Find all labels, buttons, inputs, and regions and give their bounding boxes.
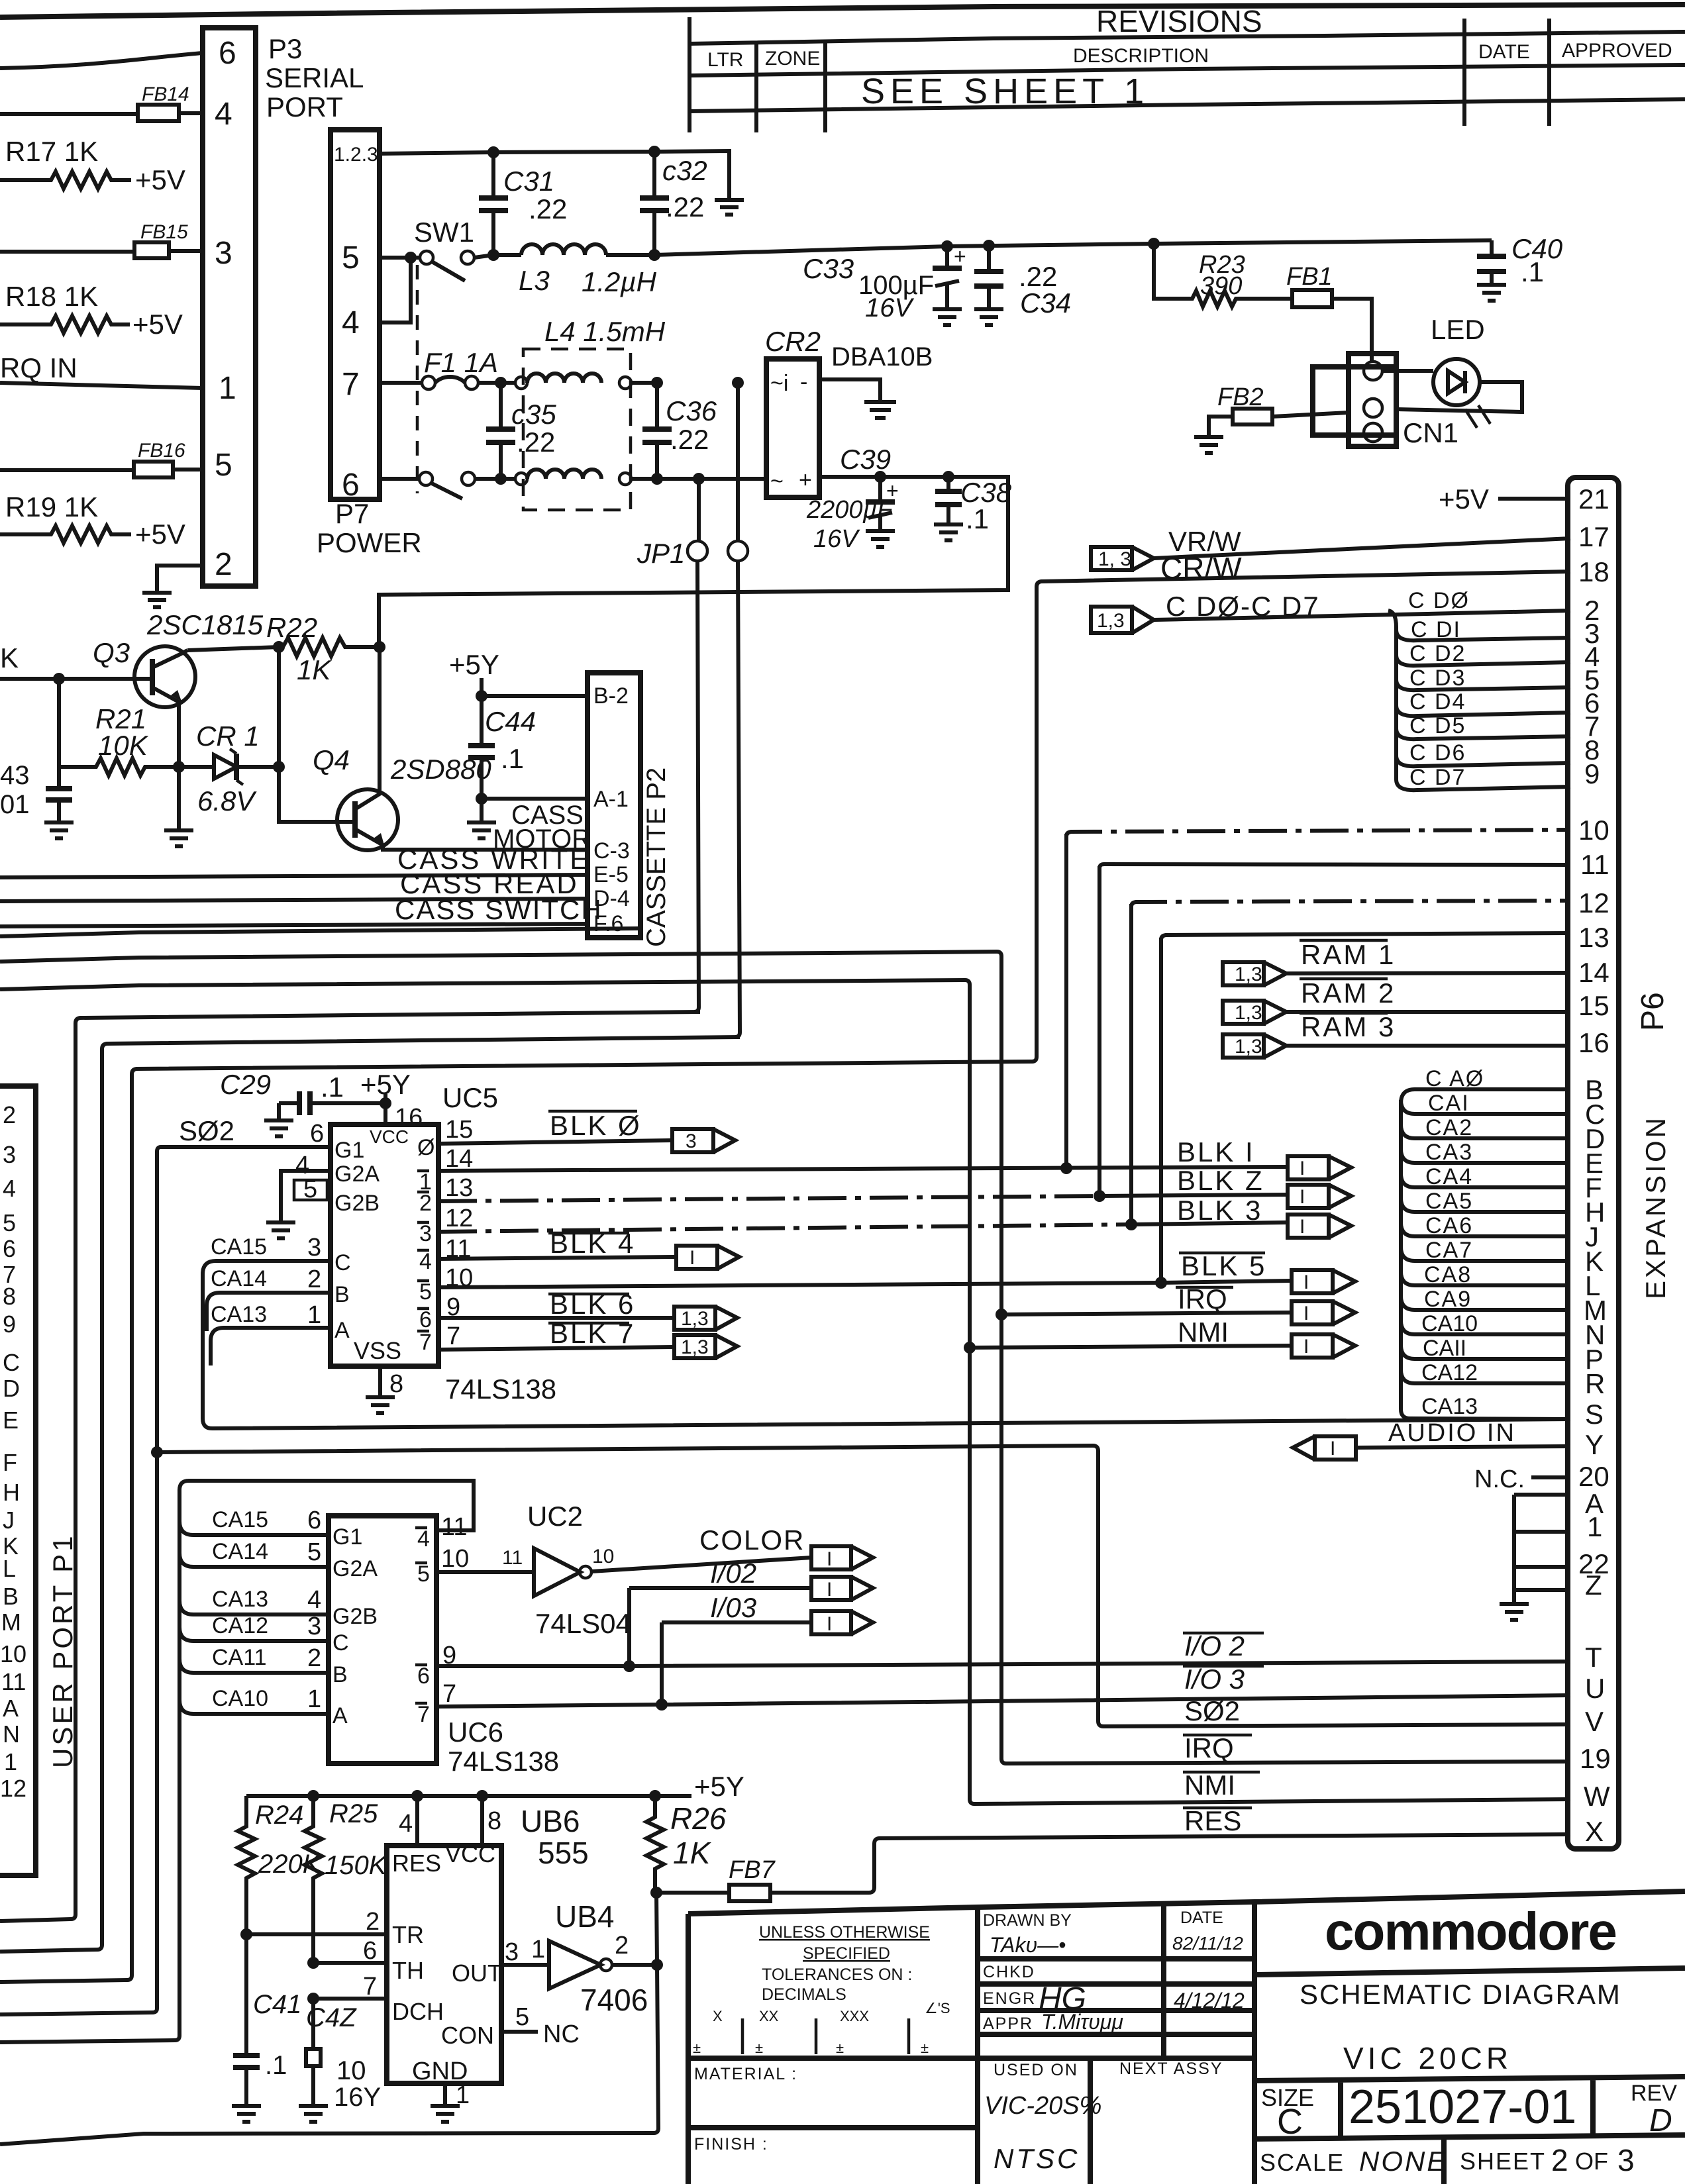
svg-text:BLK Ø: BLK Ø — [550, 1110, 642, 1141]
svg-text:U: U — [1585, 1673, 1605, 1704]
size row — [1254, 2077, 1685, 2142]
resistor R22 — [266, 612, 385, 685]
connector P2 cassette — [587, 673, 640, 938]
svg-text:V: V — [1585, 1706, 1604, 1737]
svg-text:4/12/12: 4/12/12 — [1174, 1989, 1245, 2012]
svg-text:I: I — [1300, 1158, 1305, 1179]
capacitor C33 electrolytic — [803, 240, 966, 325]
svg-text:C D2: C D2 — [1409, 641, 1466, 666]
scale / sheet row — [1260, 2139, 1635, 2184]
svg-text:I: I — [1300, 1216, 1305, 1238]
wire CR2 plus output — [379, 477, 1008, 647]
svg-text:P3: P3 — [268, 33, 302, 64]
svg-text:BLK I: BLK I — [1177, 1136, 1255, 1167]
wire +5V to UC5 pin16 — [360, 1069, 423, 1132]
svg-text:9: 9 — [3, 1311, 16, 1338]
wire RES from FB7 to port X — [770, 1834, 1570, 1893]
svg-text:CA8: CA8 — [1424, 1262, 1472, 1287]
svg-text:POWER: POWER — [317, 527, 422, 558]
capacitor C32 — [640, 146, 707, 261]
capacitor C41 — [232, 1934, 301, 2122]
ferrite bead FB16 — [0, 440, 203, 477]
resistor R17 — [0, 136, 185, 195]
svg-text:A-1: A-1 — [593, 787, 629, 812]
svg-text:14: 14 — [445, 1145, 473, 1173]
svg-text:TOLERANCES ON :: TOLERANCES ON : — [762, 1965, 912, 1984]
svg-text:CA6: CA6 — [1425, 1213, 1473, 1238]
net RAM3 flag — [1223, 1011, 1570, 1058]
svg-text:X: X — [1585, 1816, 1604, 1847]
svg-text:NMI: NMI — [1184, 1769, 1235, 1801]
svg-text:17: 17 — [1578, 521, 1609, 552]
net CA13 to UC5 A — [211, 1301, 331, 1365]
svg-text:11: 11 — [502, 1547, 523, 1569]
sheet top border — [0, 5, 1685, 17]
svg-text:BLK 5: BLK 5 — [1181, 1250, 1266, 1281]
svg-text:12: 12 — [1578, 887, 1609, 918]
svg-text:7: 7 — [342, 367, 360, 402]
svg-text:DATE: DATE — [1180, 1909, 1223, 1927]
svg-text:3: 3 — [419, 1221, 432, 1246]
ground P3 pin2 — [142, 593, 172, 607]
svg-text:I: I — [1303, 1336, 1309, 1358]
svg-text:2SC1815: 2SC1815 — [146, 609, 264, 640]
svg-text:4: 4 — [3, 1175, 16, 1202]
net CD0-CD7 flag — [1091, 591, 1570, 633]
svg-text:CASSETTE P2: CASSETTE P2 — [642, 768, 671, 947]
svg-text:TR: TR — [392, 1921, 424, 1948]
svg-text:10: 10 — [336, 2056, 366, 2085]
svg-text:6: 6 — [307, 1507, 321, 1534]
svg-text:c32: c32 — [662, 155, 707, 186]
svg-text:2200µF: 2200µF — [806, 496, 894, 524]
svg-text:1.2µH: 1.2µH — [582, 266, 657, 297]
svg-text:H: H — [3, 1479, 20, 1506]
net S02 to UC5 G1 — [0, 1115, 331, 2014]
wire IRQ IN to pin1 — [0, 383, 203, 388]
svg-text:2: 2 — [307, 1266, 321, 1293]
capacitor C38 — [934, 471, 1012, 540]
svg-text:I/O 3: I/O 3 — [1184, 1663, 1245, 1695]
svg-text:C39: C39 — [840, 444, 891, 475]
svg-text:4: 4 — [342, 305, 360, 340]
svg-text:2: 2 — [307, 1644, 321, 1672]
svg-text:B: B — [3, 1583, 19, 1610]
net COLOR flag — [591, 1524, 873, 1571]
svg-text:VCC: VCC — [445, 1840, 495, 1867]
svg-text:P7: P7 — [335, 498, 369, 529]
svg-text:C29: C29 — [220, 1069, 271, 1100]
svg-text:C DØ: C DØ — [1408, 588, 1470, 613]
svg-text:390: 390 — [1200, 272, 1242, 300]
svg-text:ZONE: ZONE — [765, 48, 820, 70]
svg-text:NC: NC — [543, 2020, 580, 2048]
UB6 CON pin5 NC — [501, 2003, 580, 2048]
wire bus C to NMI riser — [0, 980, 1570, 1804]
svg-text:C41: C41 — [253, 1990, 301, 2019]
svg-text:VIC-20S℅: VIC-20S℅ — [984, 2092, 1101, 2120]
wire bus F to CR/W riser — [0, 571, 1570, 1982]
ferrite bead FB2 — [1194, 383, 1349, 453]
bus CA comb — [1401, 1089, 1570, 1419]
svg-text:251027-01: 251027-01 — [1349, 2081, 1576, 2134]
svg-text:UC2: UC2 — [527, 1501, 583, 1532]
svg-text:G2B: G2B — [332, 1604, 378, 1629]
title block left column — [688, 1902, 1254, 2184]
UB6 GND pin1 ground — [431, 2081, 470, 2122]
svg-text:1: 1 — [219, 371, 236, 406]
net CA10 to UC6 A — [179, 1685, 329, 1714]
svg-text:+5V: +5V — [1439, 483, 1489, 515]
net BLK6 — [438, 1289, 737, 1330]
svg-text:20: 20 — [1578, 1461, 1609, 1492]
svg-text:1,3: 1,3 — [1235, 1002, 1262, 1024]
UB6 pin4 pin8 stubs — [399, 1796, 501, 1846]
svg-text:1: 1 — [4, 1748, 17, 1775]
svg-text:6: 6 — [363, 1937, 377, 1965]
svg-text:C31: C31 — [503, 166, 554, 197]
net BLK5 to flag — [438, 1250, 1355, 1293]
svg-text:±: ± — [693, 2040, 701, 2056]
svg-text:CASS SWITCH: CASS SWITCH — [395, 894, 603, 925]
svg-text:RAM 3: RAM 3 — [1301, 1011, 1396, 1042]
revisions table — [689, 17, 1685, 132]
svg-text:X: X — [713, 2008, 723, 2024]
resistor R24 — [238, 1796, 322, 1934]
svg-text:.1: .1 — [265, 2051, 287, 2080]
svg-text:APPROVED: APPROVED — [1562, 40, 1672, 62]
svg-text:CN1: CN1 — [1403, 417, 1458, 448]
svg-text:FB14: FB14 — [142, 83, 189, 105]
svg-text:10: 10 — [1578, 815, 1609, 846]
svg-text:6.8V: 6.8V — [197, 785, 257, 817]
wire JP1 right vertical — [735, 561, 740, 1037]
svg-text:18: 18 — [1578, 556, 1609, 587]
svg-text:CA2: CA2 — [1425, 1115, 1473, 1140]
svg-text:ENGR: ENGR — [983, 1989, 1036, 2008]
svg-text:.22: .22 — [517, 426, 555, 458]
wire C42 to DCH — [307, 1973, 387, 2005]
svg-text:6: 6 — [310, 1120, 324, 1148]
svg-text:R18 1K: R18 1K — [5, 281, 98, 312]
capacitor C34 — [974, 240, 1071, 325]
svg-text:N: N — [3, 1720, 20, 1748]
svg-text:.1: .1 — [321, 1071, 344, 1103]
svg-text:43: 43 — [0, 761, 30, 790]
svg-text:AUDIO IN: AUDIO IN — [1388, 1419, 1516, 1447]
svg-text:XX: XX — [759, 2008, 779, 2024]
ground below Q3 emitter — [164, 767, 193, 846]
svg-text:2: 2 — [366, 1908, 380, 1936]
svg-text:NMI: NMI — [1178, 1316, 1229, 1348]
svg-text:C AØ: C AØ — [1425, 1066, 1484, 1091]
svg-text:CA14: CA14 — [212, 1539, 268, 1564]
wire Q3 collector to R22 — [187, 647, 279, 650]
resistor R23 — [1148, 238, 1245, 307]
svg-text:VIC 20CR: VIC 20CR — [1343, 2041, 1512, 2075]
connector P1 user port — [0, 1086, 36, 1875]
svg-text:USED ON: USED ON — [994, 2061, 1078, 2079]
svg-text:.22: .22 — [529, 193, 567, 224]
wire LED loop — [1382, 371, 1522, 412]
svg-text:SCALE: SCALE — [1260, 2149, 1345, 2176]
commodore logo — [1254, 1902, 1685, 1975]
svg-text:NTSC: NTSC — [994, 2143, 1080, 2174]
svg-text:4: 4 — [307, 1586, 321, 1614]
net NMI flag — [964, 1316, 1355, 1358]
UC5 VSS pin8 ground — [366, 1366, 403, 1413]
net RAM2 flag — [1223, 977, 1570, 1024]
svg-text:c35: c35 — [511, 399, 556, 430]
svg-text:UNLESS OTHERWISE: UNLESS OTHERWISE — [759, 1923, 930, 1942]
svg-text:7: 7 — [442, 1680, 456, 1708]
svg-text:MATERIAL :: MATERIAL : — [694, 2065, 797, 2083]
svg-text:OUT: OUT — [452, 1960, 502, 1987]
svg-text:555: 555 — [538, 1836, 589, 1870]
svg-text:CA11: CA11 — [212, 1645, 267, 1670]
svg-text:1,3: 1,3 — [681, 1336, 709, 1358]
svg-text:T.Miτυμμ: T.Miτυμμ — [1041, 2010, 1123, 2034]
svg-text:L3: L3 — [519, 265, 550, 296]
switch SW1 second pole — [380, 472, 501, 499]
svg-text:10: 10 — [0, 1640, 26, 1667]
svg-text:12: 12 — [445, 1205, 473, 1232]
capacitor C42 electrolytic — [299, 1999, 381, 2122]
capacitor C31 — [479, 146, 567, 261]
svg-text:CR/W: CR/W — [1160, 551, 1242, 585]
svg-text:I: I — [827, 1613, 832, 1635]
svg-text:LTR: LTR — [707, 49, 743, 71]
svg-text:CHKD: CHKD — [983, 1963, 1035, 1981]
svg-text:DESCRIPTION: DESCRIPTION — [1073, 45, 1209, 67]
svg-text:3: 3 — [307, 1613, 321, 1640]
svg-text:BLK 3: BLK 3 — [1177, 1195, 1262, 1226]
svg-text:±: ± — [921, 2040, 929, 2056]
svg-text:PORT: PORT — [266, 91, 343, 123]
svg-text:±: ± — [755, 2040, 763, 2056]
svg-text:+: + — [799, 468, 812, 493]
svg-text:Q4: Q4 — [313, 744, 350, 775]
inductor L3 — [493, 244, 657, 297]
svg-text:UB4: UB4 — [555, 1899, 614, 1934]
svg-text:01: 01 — [0, 790, 30, 819]
svg-text:21: 21 — [1578, 483, 1609, 515]
capacitor C29 — [220, 1069, 385, 1136]
resistor R18 — [0, 281, 183, 340]
+5V rail UB6 — [246, 1771, 744, 1802]
wire UC6 pin11 loop and comb vertical — [0, 1481, 474, 2042]
transistor Q3 — [0, 609, 264, 767]
net RES port label — [1183, 1805, 1252, 1836]
svg-text:COLOR: COLOR — [699, 1524, 805, 1556]
net NMI port label — [1183, 1769, 1260, 1801]
UC5 G2A G2B tie to ground — [266, 1152, 331, 1238]
svg-text:R24: R24 — [255, 1801, 303, 1830]
wire port pin13 — [1161, 933, 1570, 1283]
ferrite bead FB1 — [1244, 263, 1372, 362]
svg-text:.22: .22 — [666, 191, 704, 223]
svg-text:SCHEMATIC DIAGRAM: SCHEMATIC DIAGRAM — [1300, 1979, 1621, 2010]
svg-text:A: A — [332, 1703, 348, 1728]
svg-text:REVISIONS: REVISIONS — [1096, 4, 1262, 38]
svg-text:CAII: CAII — [1423, 1336, 1466, 1361]
svg-text:P6: P6 — [1635, 992, 1670, 1031]
svg-text:RES: RES — [392, 1850, 441, 1877]
svg-text:CA13: CA13 — [1421, 1394, 1478, 1419]
svg-text:APPR: APPR — [983, 2014, 1033, 2033]
svg-text:J: J — [3, 1507, 15, 1534]
svg-text:C44: C44 — [485, 706, 536, 737]
svg-text:4: 4 — [399, 1810, 413, 1838]
IC UC6 74LS138 — [329, 1516, 436, 1763]
svg-text:1K: 1K — [297, 654, 332, 685]
svg-text:B-2: B-2 — [593, 683, 629, 709]
ground AC line — [715, 200, 744, 215]
svg-text:Y: Y — [1585, 1429, 1604, 1460]
svg-text:3: 3 — [686, 1130, 697, 1152]
svg-text:UC6: UC6 — [448, 1716, 503, 1748]
IC UC5 74LS138 — [331, 1082, 498, 1366]
svg-text:1,3: 1,3 — [1235, 1036, 1262, 1058]
svg-text:DCH: DCH — [392, 1998, 444, 2025]
svg-text:RAM 1: RAM 1 — [1301, 939, 1396, 970]
resistor R26 — [646, 1796, 727, 1893]
svg-text:CA7: CA7 — [1425, 1238, 1473, 1263]
svg-text:LED: LED — [1431, 314, 1485, 345]
inverter UC2 74LS04 — [436, 1501, 631, 1639]
svg-text:A: A — [334, 1318, 350, 1343]
title block outer top edge — [688, 1891, 1685, 1914]
svg-text:E: E — [3, 1407, 19, 1434]
svg-text:2: 2 — [215, 547, 232, 582]
svg-text:3: 3 — [505, 1938, 519, 1966]
capacitor C35 — [486, 383, 556, 479]
svg-text:C D4: C D4 — [1409, 689, 1466, 715]
bridge rectifier CR2 — [765, 326, 933, 497]
svg-text:16V: 16V — [813, 525, 860, 553]
svg-text:CAI: CAI — [1428, 1091, 1470, 1116]
svg-text:UB6: UB6 — [521, 1804, 580, 1838]
wire bus A — [0, 928, 639, 936]
svg-text:CON: CON — [441, 2022, 494, 2049]
svg-text:I/02: I/02 — [710, 1558, 756, 1589]
net I/O2 port label — [1183, 1630, 1264, 1662]
svg-text:BLK 6: BLK 6 — [550, 1289, 635, 1320]
svg-text:BLK Z: BLK Z — [1177, 1165, 1264, 1196]
svg-text:NONE: NONE — [1359, 2146, 1447, 2177]
net IRQ flag — [996, 1283, 1355, 1324]
svg-text:+: + — [954, 244, 966, 268]
svg-text:CA4: CA4 — [1425, 1164, 1473, 1189]
net CASS READ — [0, 868, 587, 901]
svg-text:1,3: 1,3 — [1097, 610, 1125, 632]
svg-text:6: 6 — [419, 1307, 432, 1332]
svg-text:BLK 7: BLK 7 — [550, 1318, 635, 1349]
svg-text:I: I — [827, 1548, 832, 1570]
svg-text:5: 5 — [3, 1209, 16, 1236]
svg-text:CA5: CA5 — [1425, 1189, 1473, 1214]
svg-text:19: 19 — [1580, 1743, 1611, 1774]
net CA13 to UC6 G2B — [179, 1586, 329, 1614]
transistor Q4 — [313, 647, 587, 850]
svg-text:+5Y: +5Y — [449, 649, 499, 680]
svg-text:C34: C34 — [1020, 287, 1071, 319]
svg-text:JP1: JP1 — [637, 538, 685, 569]
svg-text:T: T — [1585, 1642, 1602, 1673]
svg-text:R: R — [1585, 1368, 1605, 1399]
ferrite bead FB7 — [656, 1856, 776, 1901]
net BLK2 to flag — [438, 1165, 1351, 1208]
net CASS SWITCH — [0, 894, 603, 926]
svg-text:±: ± — [836, 2040, 844, 2056]
svg-text:1.2.3: 1.2.3 — [334, 144, 378, 166]
wire JP1 left vertical — [694, 561, 699, 1012]
svg-text:74LS04: 74LS04 — [535, 1608, 631, 1639]
svg-text:7: 7 — [417, 1702, 430, 1727]
svg-text:+5Y: +5Y — [694, 1771, 744, 1802]
svg-text:IRQ: IRQ — [1184, 1732, 1234, 1763]
svg-text:5: 5 — [515, 2003, 529, 2031]
svg-text:N.C.: N.C. — [1474, 1465, 1525, 1493]
svg-text:1: 1 — [307, 1685, 321, 1713]
svg-text:16: 16 — [1578, 1027, 1609, 1058]
connector P7 power — [331, 130, 380, 503]
svg-text:B: B — [332, 1662, 348, 1687]
svg-text:DECIMALS: DECIMALS — [762, 1985, 846, 2004]
svg-text:CA12: CA12 — [212, 1613, 268, 1638]
net I/O3 flag — [656, 1592, 873, 1711]
svg-text:CR 1: CR 1 — [196, 720, 260, 752]
svg-text:I: I — [1330, 1438, 1335, 1460]
svg-text:DBA10B: DBA10B — [831, 342, 933, 372]
svg-text:14: 14 — [1578, 957, 1609, 988]
wire pin6 — [0, 53, 203, 68]
svg-text:10: 10 — [441, 1545, 469, 1573]
svg-text:5: 5 — [419, 1279, 432, 1305]
svg-text:S: S — [1585, 1399, 1604, 1430]
svg-text:R22: R22 — [266, 612, 317, 643]
inductor L4 bottom winding — [495, 470, 766, 485]
svg-text:SHEET: SHEET — [1460, 2148, 1546, 2175]
svg-text:2: 2 — [1551, 2143, 1568, 2177]
svg-text:C-3: C-3 — [593, 838, 630, 864]
wire R22 left to Q4 base — [279, 647, 355, 822]
svg-text:+5V: +5V — [135, 164, 185, 195]
svg-text:~: ~ — [770, 469, 784, 494]
net CASS WRITE — [0, 844, 590, 877]
svg-text:I/O 2: I/O 2 — [1184, 1630, 1245, 1662]
svg-text:BLK 4: BLK 4 — [550, 1228, 635, 1259]
svg-text:CA10: CA10 — [1421, 1311, 1478, 1336]
net +5V to pin21 — [1439, 483, 1570, 515]
svg-text:1: 1 — [531, 1936, 545, 1963]
svg-text:M: M — [1, 1609, 21, 1636]
zener diode CR1 — [173, 720, 279, 817]
svg-text:.1: .1 — [1521, 256, 1544, 287]
svg-text:G1: G1 — [332, 1524, 362, 1550]
svg-text:C D5: C D5 — [1409, 713, 1466, 738]
svg-text:FB15: FB15 — [140, 221, 188, 243]
net I/O3 port label — [1183, 1663, 1264, 1695]
svg-text:6: 6 — [219, 36, 236, 71]
svg-text:TH: TH — [392, 1957, 424, 1984]
svg-text:15: 15 — [1578, 990, 1609, 1021]
svg-text:K: K — [0, 642, 19, 673]
net CA14 to UC6 G2A — [179, 1538, 329, 1567]
resistor R19 — [0, 491, 185, 550]
net N.C. pin20 — [1474, 1465, 1570, 1493]
jumper JP1 — [637, 377, 748, 569]
